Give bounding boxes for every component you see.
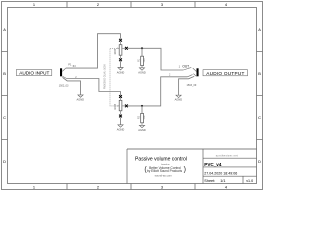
svg-text:by Elliott Sound Products: by Elliott Sound Products: [147, 169, 183, 173]
svg-text:AGND: AGND: [77, 98, 85, 102]
ground AGND under pot B: [117, 125, 125, 132]
svg-text:1: 1: [33, 2, 35, 7]
frame labels: [3, 2, 261, 189]
svg-text:AGND: AGND: [138, 128, 146, 132]
jack P1 (input): [60, 68, 67, 78]
svg-text:27.04.2020 18:49:06: 27.04.2020 18:49:06: [204, 171, 237, 175]
ground AGND under input jack: [77, 95, 85, 102]
svg-text:D: D: [3, 159, 6, 164]
svg-text:3: 3: [161, 2, 163, 7]
svg-text:AGND: AGND: [117, 70, 125, 74]
ground AGND under output jack: [175, 95, 183, 101]
ground AGND under R2: [138, 125, 146, 132]
wire pot A wiper to junction and right: [128, 48, 184, 70]
svg-text:B: B: [258, 71, 261, 76]
svg-text:v1.0: v1.0: [246, 179, 253, 183]
svg-text:3: 3: [161, 184, 163, 189]
svg-text:OUT: OUT: [182, 64, 189, 68]
ground AGND under R1: [138, 68, 146, 75]
svg-text:AUDIO OUTPUT: AUDIO OUTPUT: [206, 71, 244, 76]
svg-text:100B: 100B: [114, 104, 117, 110]
wire input tip to pot A top: [66, 34, 121, 68]
wire input sleeve to AGND: [63, 77, 81, 95]
potentiometer RV1A body: [118, 42, 126, 59]
no-connect X pot A pin 3: [119, 58, 122, 61]
svg-text:2: 2: [97, 184, 99, 189]
resistor R1: [141, 56, 144, 68]
title block: [127, 149, 257, 184]
svg-text:AGND: AGND: [117, 128, 125, 132]
wire pot A bottom to AGND: [120, 61, 122, 67]
svg-text:AUDIO INPUT: AUDIO INPUT: [19, 71, 49, 76]
wire pot B wiper to junction and output ring: [128, 77, 188, 106]
svg-text:1502_03: 1502_03: [59, 84, 69, 87]
hierarchical label AUDIO OUTPUT: [203, 70, 248, 76]
svg-text:PVC_v4: PVC_v4: [204, 162, 222, 167]
svg-text:): ): [184, 166, 186, 173]
no-connect X pot A wiper: [125, 47, 128, 50]
sheet frame: [2, 2, 263, 190]
svg-text:synthesizer.net: synthesizer.net: [216, 154, 239, 158]
svg-text:1503_09: 1503_09: [187, 84, 197, 87]
no-connect X pot B pin 1: [119, 95, 122, 98]
jack P2 (output): [183, 67, 198, 76]
no-connect X pot B wiper: [125, 105, 128, 108]
svg-text:100B: 100B: [114, 48, 117, 54]
svg-text:10K: 10K: [144, 58, 146, 63]
wire junction to resistor R1: [141, 48, 143, 56]
svg-text:IN: IN: [73, 64, 76, 68]
wire junction to resistor R2: [141, 106, 143, 114]
junction node channel B: [141, 105, 143, 107]
mechanical link dual pot (dashed): [110, 48, 117, 106]
no-connect X pot B pin 3: [119, 115, 122, 118]
svg-text:1/1: 1/1: [220, 179, 225, 183]
svg-text:A: A: [258, 27, 261, 32]
potentiometer RV1B body: [118, 98, 126, 115]
svg-text:Sheet:: Sheet:: [204, 179, 215, 183]
wire pot B bottom to AGND: [120, 117, 122, 125]
no-connect X pot A pin 1: [119, 39, 122, 42]
svg-text:10K: 10K: [144, 115, 146, 120]
svg-text:1: 1: [33, 184, 35, 189]
svg-text:RV500BG-DUAL-100K: RV500BG-DUAL-100K: [103, 64, 106, 90]
svg-text:C: C: [258, 115, 261, 120]
junction node channel A: [141, 47, 143, 49]
wire output sleeve to AGND: [179, 76, 195, 95]
svg-text:A: A: [3, 27, 6, 32]
svg-text:P1: P1: [68, 63, 72, 67]
svg-text:C: C: [3, 115, 6, 120]
ground AGND under pot A: [117, 68, 125, 75]
svg-text:2: 2: [97, 2, 99, 7]
svg-text:Passive volume control: Passive volume control: [135, 157, 187, 163]
svg-text:AGND: AGND: [175, 98, 183, 102]
svg-text:B: B: [3, 71, 6, 76]
svg-text:D: D: [258, 159, 261, 164]
wire input ring to pot B top: [67, 79, 121, 96]
hierarchical label AUDIO INPUT: [16, 70, 52, 76]
svg-text:sound-au.com: sound-au.com: [155, 174, 173, 178]
svg-text:AGND: AGND: [138, 71, 146, 75]
resistor R2: [141, 113, 144, 125]
